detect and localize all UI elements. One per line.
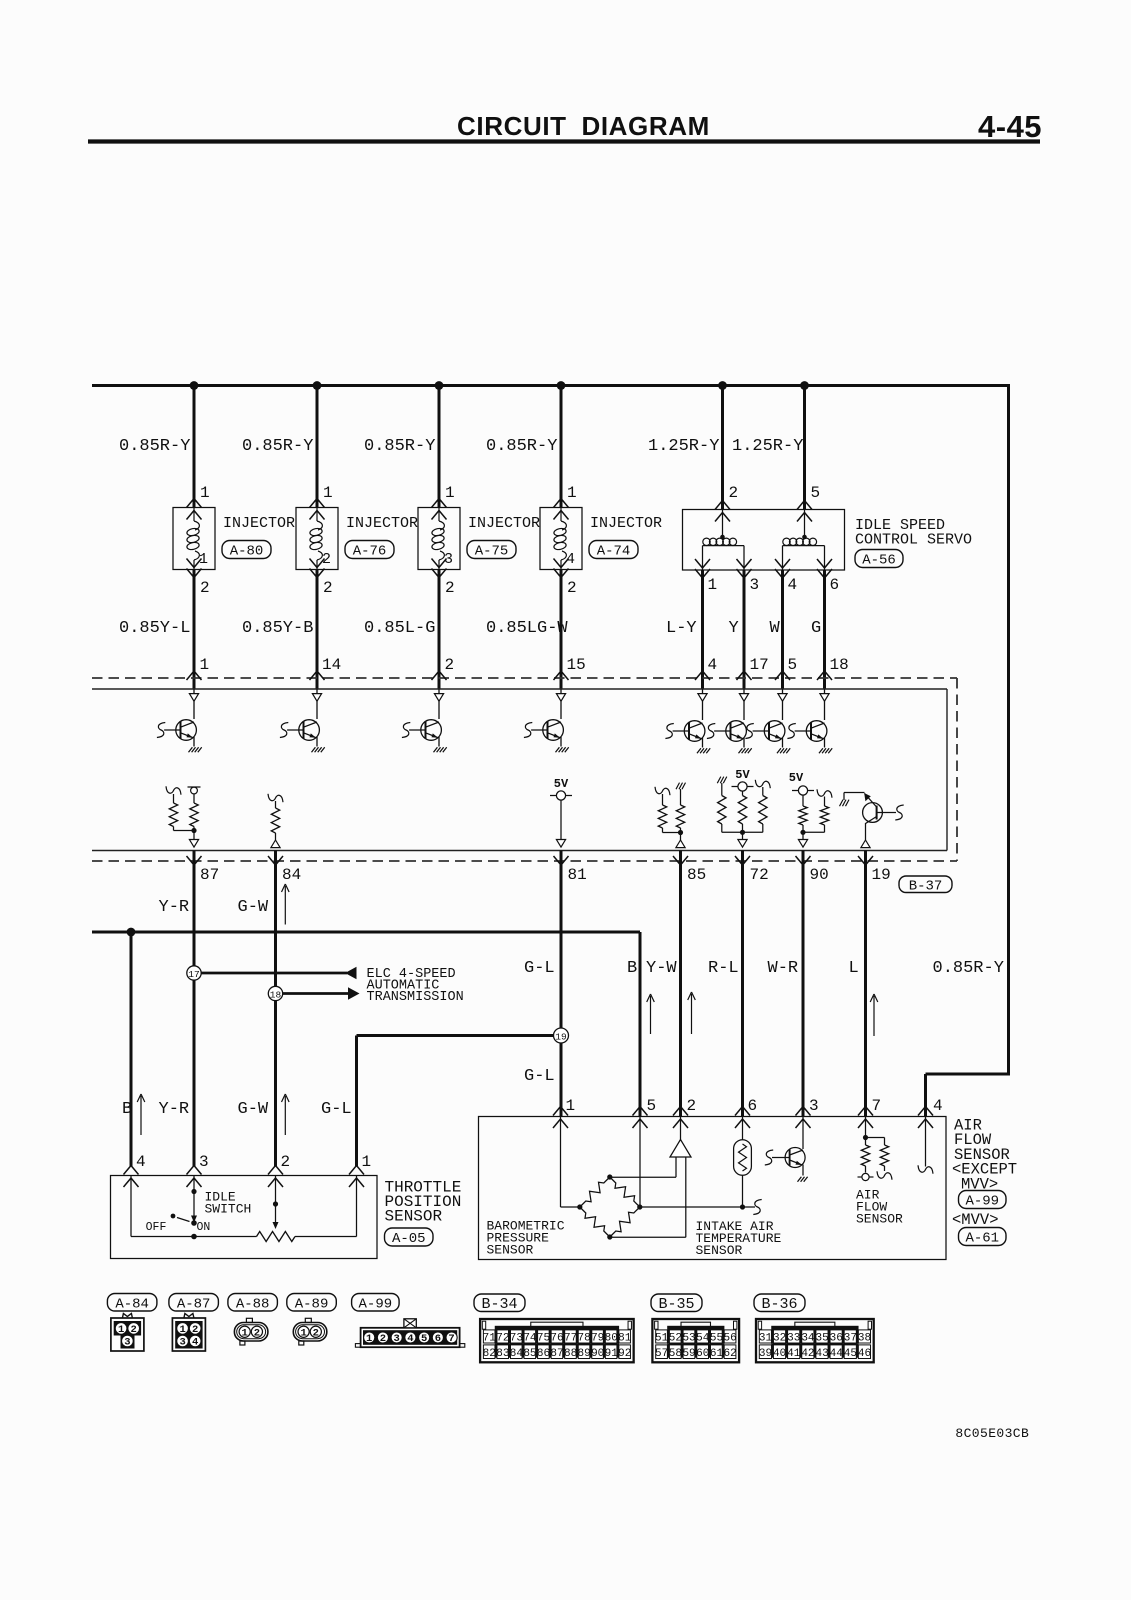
svg-text:A-89: A-89 (295, 1296, 329, 1312)
svg-text:1: 1 (242, 1327, 248, 1339)
svg-text:R-L: R-L (708, 959, 739, 978)
svg-text:59: 59 (682, 1348, 695, 1360)
svg-text:81: 81 (568, 866, 587, 884)
svg-text:80: 80 (605, 1333, 618, 1345)
svg-text:17: 17 (750, 656, 769, 674)
svg-text:1: 1 (179, 1324, 185, 1336)
svg-text:2: 2 (445, 579, 455, 597)
svg-text:G: G (811, 619, 821, 638)
svg-text:7: 7 (448, 1333, 454, 1345)
svg-text:Y-R: Y-R (159, 1100, 190, 1119)
svg-text:75: 75 (537, 1333, 550, 1345)
svg-text:71: 71 (483, 1333, 497, 1345)
svg-text:1: 1 (200, 484, 210, 502)
svg-text:6: 6 (748, 1097, 758, 1115)
svg-text:85: 85 (687, 866, 706, 884)
svg-text:CONTROL SERVO: CONTROL SERVO (855, 532, 972, 549)
svg-text:1: 1 (708, 576, 718, 594)
svg-text:53: 53 (682, 1333, 695, 1345)
svg-text:Y-R: Y-R (159, 898, 190, 917)
svg-text:31: 31 (759, 1333, 773, 1345)
svg-text:1: 1 (118, 1324, 124, 1336)
svg-text:A-88: A-88 (236, 1296, 270, 1312)
svg-text:5: 5 (811, 484, 821, 502)
svg-text:0.85R-Y: 0.85R-Y (486, 437, 557, 456)
svg-text:0.85L-G: 0.85L-G (364, 619, 435, 638)
svg-text:6: 6 (830, 576, 840, 594)
svg-text:45: 45 (844, 1348, 857, 1360)
svg-text:B-35: B-35 (658, 1296, 694, 1313)
svg-text:B-37: B-37 (909, 878, 943, 894)
svg-text:CIRCUIT DIAGRAM: CIRCUIT DIAGRAM (457, 111, 710, 141)
svg-text:2: 2 (281, 1153, 291, 1171)
svg-text:L: L (849, 959, 859, 978)
svg-text:5V: 5V (789, 771, 804, 785)
svg-text:INJECTOR: INJECTOR (346, 515, 418, 532)
svg-text:4: 4 (708, 656, 718, 674)
svg-text:4: 4 (933, 1097, 943, 1115)
svg-text:57: 57 (655, 1348, 668, 1360)
svg-text:2: 2 (687, 1097, 697, 1115)
svg-text:B-36: B-36 (761, 1296, 797, 1313)
svg-text:SENSOR: SENSOR (856, 1212, 903, 1227)
svg-text:SENSOR: SENSOR (385, 1208, 443, 1226)
svg-text:61: 61 (710, 1348, 724, 1360)
svg-text:8C05E03CB: 8C05E03CB (955, 1426, 1029, 1441)
svg-text:G-L: G-L (524, 959, 555, 978)
svg-text:2: 2 (445, 656, 455, 674)
svg-text:32: 32 (773, 1333, 786, 1345)
svg-text:OFF: OFF (146, 1221, 167, 1234)
svg-text:G-W: G-W (238, 1100, 269, 1119)
svg-text:40: 40 (773, 1348, 786, 1360)
svg-text:5V: 5V (735, 768, 750, 782)
svg-text:0.85R-Y: 0.85R-Y (119, 437, 190, 456)
svg-text:6: 6 (435, 1333, 441, 1345)
svg-text:A-05: A-05 (392, 1231, 426, 1247)
svg-text:3: 3 (179, 1337, 185, 1349)
svg-text:86: 86 (537, 1348, 550, 1360)
svg-text:39: 39 (759, 1348, 772, 1360)
svg-text:60: 60 (696, 1348, 709, 1360)
svg-text:5: 5 (788, 656, 798, 674)
svg-text:62: 62 (724, 1348, 737, 1360)
svg-text:56: 56 (724, 1333, 737, 1345)
svg-text:A-84: A-84 (115, 1296, 149, 1312)
svg-text:SENSOR: SENSOR (696, 1243, 743, 1258)
svg-text:A-61: A-61 (965, 1231, 999, 1247)
svg-text:3: 3 (124, 1337, 130, 1349)
svg-text:90: 90 (591, 1348, 604, 1360)
svg-text:3: 3 (394, 1333, 400, 1345)
svg-text:82: 82 (483, 1348, 496, 1360)
svg-text:72: 72 (750, 866, 769, 884)
svg-text:1: 1 (566, 1097, 576, 1115)
svg-text:2: 2 (323, 579, 333, 597)
svg-text:G-W: G-W (238, 898, 269, 917)
svg-text:15: 15 (567, 656, 586, 674)
svg-text:2: 2 (567, 579, 577, 597)
svg-text:5: 5 (647, 1097, 657, 1115)
svg-text:W-R: W-R (768, 959, 799, 978)
svg-text:A-87: A-87 (177, 1296, 211, 1312)
svg-text:88: 88 (564, 1348, 577, 1360)
svg-text:1.25R-Y: 1.25R-Y (732, 437, 803, 456)
svg-text:84: 84 (282, 866, 301, 884)
svg-text:35: 35 (815, 1333, 828, 1345)
svg-text:7: 7 (872, 1097, 882, 1115)
svg-text:14: 14 (322, 656, 341, 674)
svg-text:83: 83 (496, 1348, 509, 1360)
svg-text:4: 4 (407, 1333, 413, 1345)
svg-text:85: 85 (523, 1348, 536, 1360)
svg-text:4: 4 (788, 576, 798, 594)
svg-text:1: 1 (445, 484, 455, 502)
svg-text:B: B (122, 1100, 132, 1119)
svg-text:76: 76 (550, 1333, 563, 1345)
svg-text:19: 19 (555, 1032, 567, 1043)
svg-text:Y-W: Y-W (646, 959, 677, 978)
svg-text:74: 74 (523, 1333, 537, 1345)
svg-text:0.85Y-B: 0.85Y-B (242, 619, 313, 638)
svg-text:77: 77 (564, 1333, 577, 1345)
svg-text:3: 3 (199, 1153, 209, 1171)
svg-text:44: 44 (830, 1348, 844, 1360)
svg-text:2: 2 (313, 1327, 319, 1339)
svg-text:37: 37 (844, 1333, 857, 1345)
svg-text:2: 2 (200, 579, 210, 597)
svg-text:INJECTOR: INJECTOR (590, 515, 662, 532)
svg-text:SENSOR: SENSOR (487, 1243, 534, 1258)
svg-text:A-76: A-76 (353, 544, 387, 560)
svg-text:2: 2 (131, 1324, 137, 1336)
svg-text:1: 1 (362, 1153, 372, 1171)
svg-text:36: 36 (830, 1333, 843, 1345)
svg-text:5V: 5V (554, 777, 569, 791)
svg-text:B-34: B-34 (481, 1296, 517, 1313)
svg-text:52: 52 (669, 1333, 682, 1345)
svg-text:0.85R-Y: 0.85R-Y (364, 437, 435, 456)
svg-text:SWITCH: SWITCH (205, 1202, 252, 1217)
svg-text:42: 42 (801, 1348, 814, 1360)
svg-text:2: 2 (729, 484, 739, 502)
svg-text:2: 2 (192, 1324, 198, 1336)
svg-text:2: 2 (254, 1327, 260, 1339)
svg-text:G-L: G-L (321, 1100, 352, 1119)
svg-text:0.85Y-L: 0.85Y-L (119, 619, 190, 638)
svg-text:43: 43 (815, 1348, 828, 1360)
svg-text:A-74: A-74 (597, 544, 631, 560)
svg-text:0.85R-Y: 0.85R-Y (933, 959, 1004, 978)
svg-text:19: 19 (872, 866, 891, 884)
svg-text:18: 18 (830, 656, 849, 674)
svg-text:78: 78 (578, 1333, 591, 1345)
svg-text:1: 1 (300, 1327, 306, 1339)
svg-text:ON: ON (197, 1221, 211, 1234)
svg-text:0.85R-Y: 0.85R-Y (242, 437, 313, 456)
svg-text:33: 33 (787, 1333, 800, 1345)
svg-text:A-80: A-80 (230, 544, 264, 560)
svg-text:3: 3 (750, 576, 760, 594)
svg-text:1: 1 (567, 484, 577, 502)
svg-text:1: 1 (200, 656, 210, 674)
svg-text:38: 38 (858, 1333, 871, 1345)
svg-text:17: 17 (188, 969, 199, 980)
svg-text:41: 41 (787, 1348, 801, 1360)
svg-text:51: 51 (655, 1333, 669, 1345)
svg-text:72: 72 (496, 1333, 509, 1345)
svg-text:Y: Y (729, 619, 739, 638)
svg-text:4: 4 (136, 1153, 146, 1171)
svg-text:34: 34 (801, 1333, 815, 1345)
svg-text:54: 54 (696, 1333, 710, 1345)
svg-text:90: 90 (810, 866, 829, 884)
svg-text:3: 3 (809, 1097, 819, 1115)
svg-text:87: 87 (200, 866, 219, 884)
svg-text:84: 84 (510, 1348, 524, 1360)
svg-text:TRANSMISSION: TRANSMISSION (367, 990, 464, 1005)
svg-text:A-75: A-75 (475, 544, 509, 560)
svg-text:92: 92 (618, 1348, 631, 1360)
svg-text:89: 89 (578, 1348, 591, 1360)
svg-text:1: 1 (366, 1333, 372, 1345)
svg-text:91: 91 (605, 1348, 619, 1360)
svg-text:5: 5 (421, 1333, 427, 1345)
svg-text:0.85LG-W: 0.85LG-W (486, 619, 568, 638)
svg-text:55: 55 (710, 1333, 723, 1345)
svg-text:B: B (627, 959, 637, 978)
svg-text:79: 79 (591, 1333, 604, 1345)
svg-text:1.25R-Y: 1.25R-Y (648, 437, 719, 456)
svg-text:G-L: G-L (524, 1067, 555, 1086)
svg-text:2: 2 (380, 1333, 386, 1345)
svg-text:58: 58 (669, 1348, 682, 1360)
svg-text:46: 46 (858, 1348, 871, 1360)
svg-text:L-Y: L-Y (666, 619, 697, 638)
svg-text:87: 87 (550, 1348, 563, 1360)
svg-text:INJECTOR: INJECTOR (223, 515, 295, 532)
svg-text:A-99: A-99 (359, 1296, 393, 1312)
svg-text:<MVV>: <MVV> (952, 1211, 999, 1229)
svg-text:4-45: 4-45 (978, 109, 1042, 144)
svg-text:81: 81 (618, 1333, 632, 1345)
svg-text:A-99: A-99 (965, 1194, 999, 1210)
svg-text:1: 1 (323, 484, 333, 502)
svg-text:A-56: A-56 (862, 553, 896, 569)
svg-text:INJECTOR: INJECTOR (468, 515, 540, 532)
svg-text:4: 4 (192, 1337, 198, 1349)
svg-text:18: 18 (270, 990, 282, 1001)
svg-text:73: 73 (510, 1333, 523, 1345)
svg-text:W: W (770, 619, 781, 638)
